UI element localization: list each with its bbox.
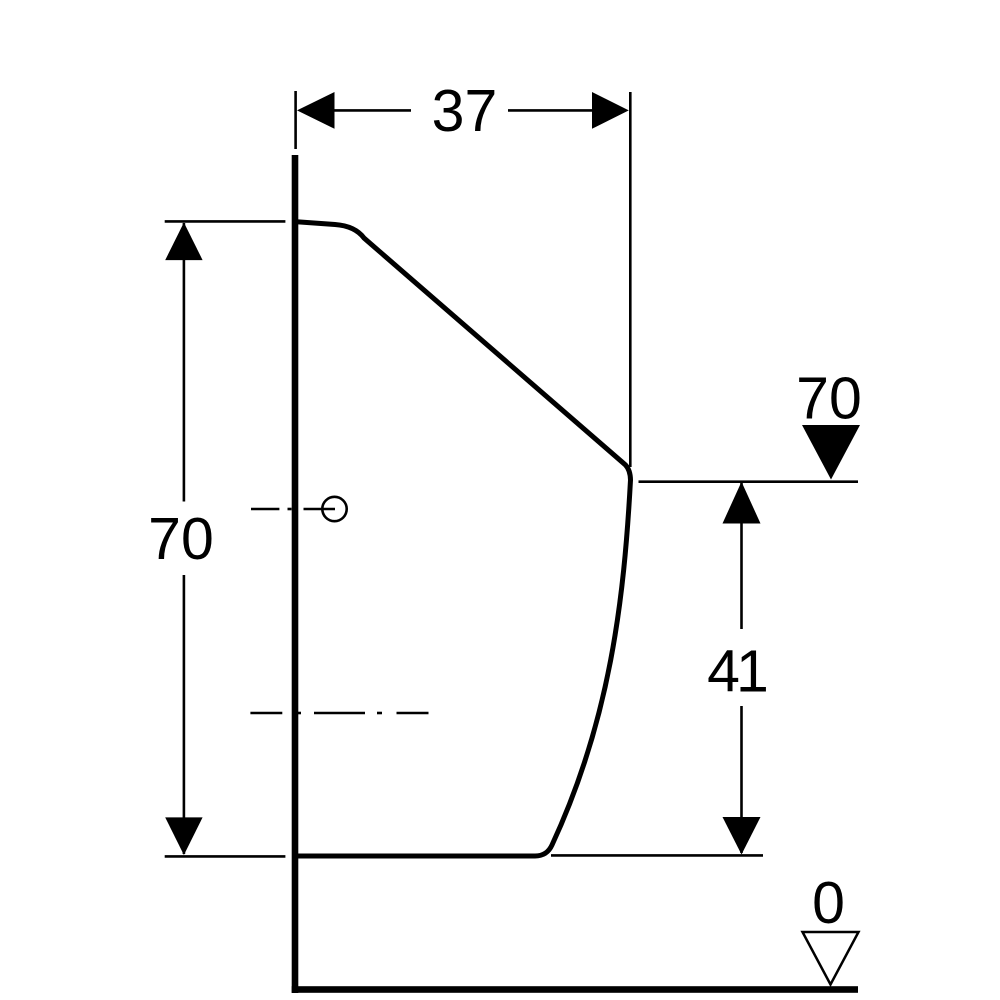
svg-text:70: 70 [796, 366, 862, 432]
svg-text:0: 0 [812, 870, 845, 936]
svg-text:41: 41 [707, 639, 766, 705]
svg-text:70: 70 [148, 506, 214, 572]
svg-text:37: 37 [432, 78, 498, 144]
